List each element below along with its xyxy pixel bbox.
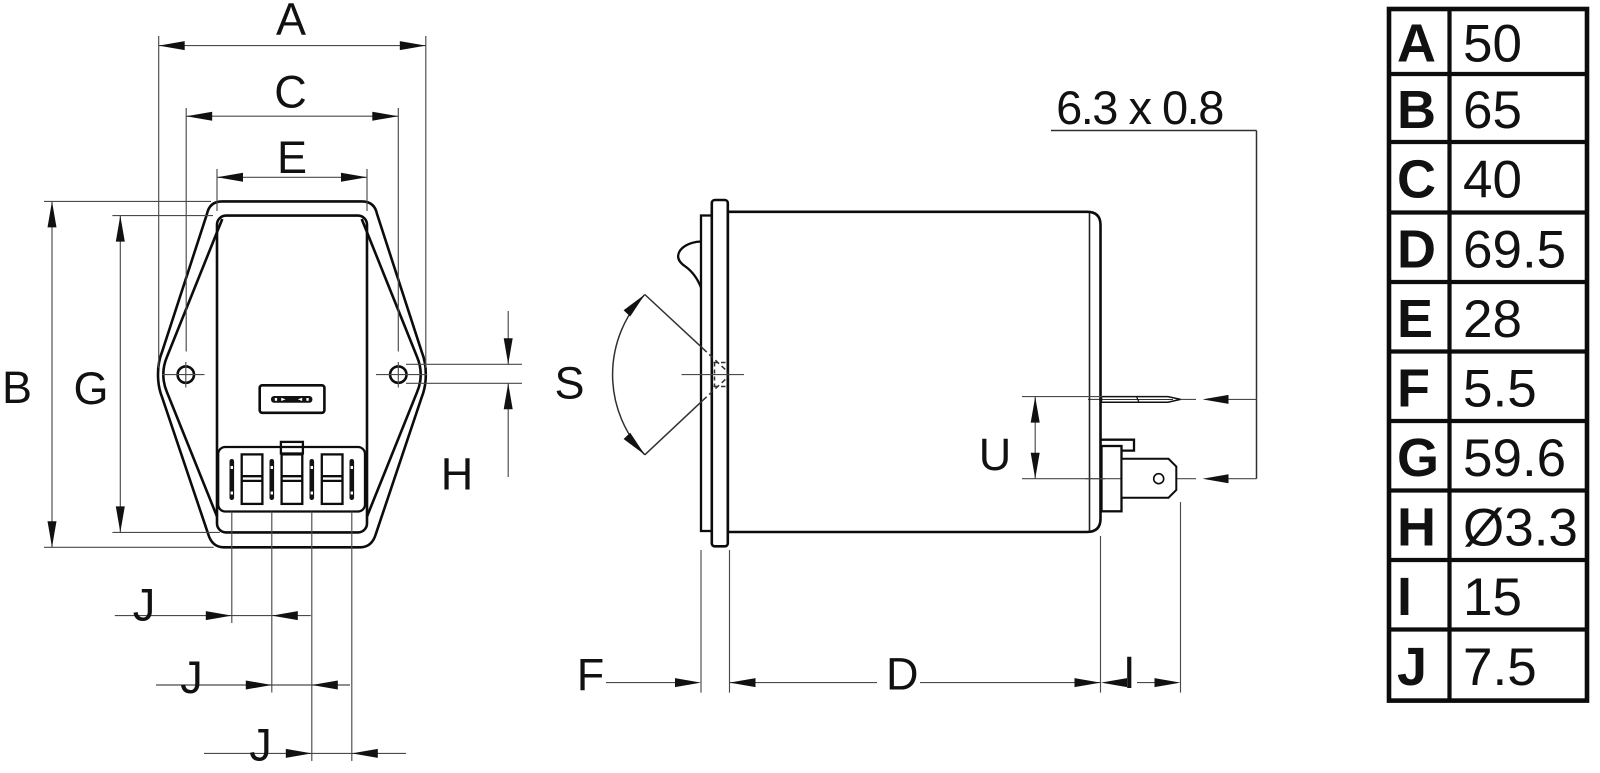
svg-text:S: S [554, 357, 584, 408]
dimension F extension line right [729, 550, 731, 693]
svg-text:J: J [180, 652, 203, 703]
pin contact 4 [350, 459, 355, 500]
svg-text:C: C [274, 67, 307, 118]
svg-text:7.5: 7.5 [1463, 638, 1537, 697]
lower terminal base plate [1102, 446, 1122, 511]
svg-text:C: C [1397, 150, 1436, 210]
svg-text:J: J [1397, 637, 1427, 697]
flange hole centerline [682, 374, 745, 376]
dimension A extension lines [158, 36, 160, 368]
angle dimension lower line [645, 400, 703, 455]
pin extension line 4 [351, 512, 353, 762]
blade terminal mid line [1102, 398, 1174, 400]
angle dimension upper hidden dashed [703, 349, 729, 373]
indicator window outer frame [260, 385, 325, 413]
mounting hole left vertical crosshair [185, 362, 187, 388]
svg-text:J: J [249, 720, 272, 771]
indicator slot white triangle right [298, 398, 302, 401]
indicator slot white triangle left [281, 398, 285, 401]
fuse box 2 [282, 454, 303, 504]
svg-text:D: D [1397, 220, 1436, 280]
front view body rounded square [217, 216, 367, 533]
svg-text:50: 50 [1463, 15, 1522, 74]
dimension B extension lines [44, 200, 211, 202]
svg-text:I: I [1123, 647, 1136, 698]
svg-text:H: H [1397, 498, 1436, 558]
blade terminal stop tick [1137, 397, 1140, 403]
dimension I extension line right [1180, 502, 1182, 693]
side view front bezel protrusion [701, 216, 712, 532]
pin contact 1 [230, 459, 235, 500]
svg-text:G: G [1397, 428, 1439, 488]
pin contact 3 [310, 459, 315, 500]
lower terminal blade [1122, 459, 1177, 498]
dimension G extension lines [112, 215, 213, 217]
side view flange plate [712, 200, 728, 546]
dimension F line and arrow [606, 682, 676, 684]
mounting hole left [178, 366, 194, 382]
indicator slot white square right [306, 398, 308, 401]
front view outer flange outline [158, 201, 426, 547]
svg-text:A: A [1397, 14, 1436, 74]
svg-text:65: 65 [1463, 81, 1522, 140]
dimension E extension lines [216, 169, 218, 211]
svg-text:A: A [276, 0, 306, 45]
side view body [728, 212, 1101, 532]
dimension table frame [1389, 9, 1587, 701]
fuse drawer outline [218, 447, 365, 512]
fuse box 3 [322, 454, 343, 504]
front view inner flange chamfer right slant [362, 219, 421, 517]
fuse drawer center latch tab [281, 442, 303, 454]
side view blade terminal centerline [1088, 398, 1196, 400]
svg-text:J: J [133, 579, 156, 630]
dimension D line [730, 682, 878, 684]
flange hole hidden dashed bottom [714, 386, 729, 388]
label leader vertical line [1256, 131, 1258, 479]
svg-text:69.5: 69.5 [1463, 221, 1566, 280]
label 6.3 x 0.8 underline [1051, 130, 1257, 132]
dimension S line [507, 311, 509, 364]
svg-text:6.3 x 0.8: 6.3 x 0.8 [1056, 81, 1223, 134]
svg-text:G: G [73, 363, 108, 414]
dimension G line [119, 216, 121, 533]
dimension U bottom extension line [1022, 478, 1105, 480]
svg-text:I: I [1397, 567, 1412, 627]
dimension A line [159, 45, 426, 47]
svg-text:B: B [2, 362, 32, 413]
mounting hole left horizontal crosshair [162, 374, 205, 376]
angle dimension lower hidden dashed [703, 377, 729, 401]
blade terminal outline [1102, 397, 1181, 403]
table row dividers [1389, 74, 1587, 630]
dimension J1 line [115, 615, 311, 617]
svg-text:59.6: 59.6 [1463, 429, 1566, 488]
svg-text:F: F [577, 649, 605, 700]
svg-text:E: E [277, 132, 307, 183]
table value column [1463, 15, 1578, 698]
dimension C line [186, 115, 398, 117]
side view body corner tangent line [1089, 213, 1091, 531]
mounting hole right horizontal crosshair [376, 374, 427, 376]
lower terminal hole [1154, 474, 1164, 484]
S feature lines [406, 363, 522, 365]
dimension D extension line right [1100, 536, 1102, 693]
table column divider [1447, 9, 1451, 701]
svg-text:H: H [441, 449, 474, 500]
leader arrow to lower terminal [1228, 478, 1257, 480]
pin extension line 1 [231, 512, 233, 624]
angle arc arrow top [624, 295, 645, 317]
fuse box 1 [242, 454, 263, 504]
side view retaining latch [678, 242, 701, 288]
svg-text:E: E [1397, 289, 1433, 349]
table letter column [1397, 14, 1439, 698]
svg-text:B: B [1397, 80, 1436, 140]
mounting hole right [390, 366, 406, 382]
svg-text:Ø3.3: Ø3.3 [1463, 499, 1578, 558]
flange hole hidden dashed top [714, 362, 729, 364]
svg-text:15: 15 [1463, 568, 1522, 627]
dimension F extension line left [700, 550, 702, 693]
dimension E line [217, 176, 367, 178]
svg-text:D: D [886, 649, 919, 700]
mounting hole right vertical crosshair [397, 362, 399, 388]
svg-text:40: 40 [1463, 151, 1522, 210]
lower terminal top hook [1102, 440, 1135, 451]
side view lower terminal centerline [1085, 478, 1196, 480]
svg-text:F: F [1397, 359, 1430, 419]
dimension U top extension line [1022, 396, 1102, 398]
pin extension line 2 [271, 512, 273, 693]
svg-text:28: 28 [1463, 290, 1522, 349]
angle dimension arc [613, 295, 645, 455]
dimension B line [51, 201, 53, 547]
dimension C extension lines [185, 108, 187, 352]
front view inner flange chamfer left slant [163, 219, 222, 517]
flange hole hidden dashed vertical [714, 363, 716, 387]
indicator slot white square left [275, 398, 277, 401]
dimension J2 line [156, 684, 350, 686]
angle arc arrow bottom [624, 433, 645, 455]
leader arrow to blade terminal [1228, 398, 1257, 400]
pin contact 2 [270, 459, 275, 500]
dimension J3 line [204, 752, 406, 754]
dimension I line and arrows [1137, 682, 1155, 684]
pin extension line 3 [311, 512, 313, 762]
svg-text:5.5: 5.5 [1463, 360, 1537, 419]
indicator window black slot [271, 396, 312, 403]
dimension U line [1034, 397, 1036, 479]
svg-text:U: U [979, 429, 1012, 480]
angle dimension upper line [645, 295, 703, 349]
